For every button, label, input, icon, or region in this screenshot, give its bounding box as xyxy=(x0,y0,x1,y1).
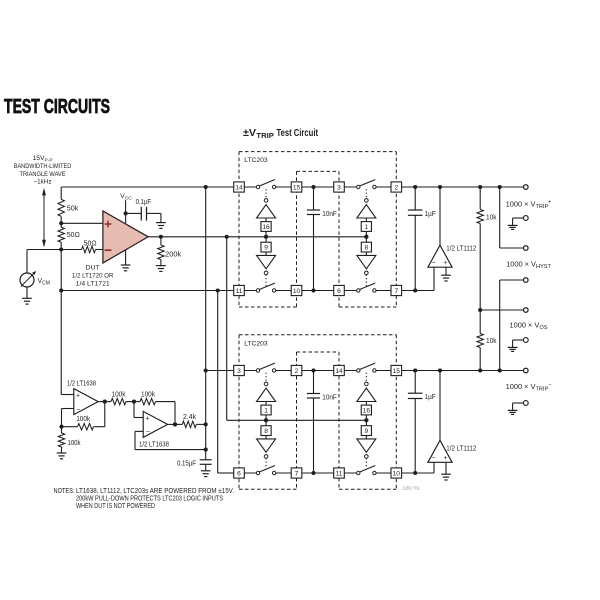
svg-text:11: 11 xyxy=(236,288,243,295)
svg-text:1µF: 1µF xyxy=(425,394,436,401)
svg-text:TRIANGLE WAVE: TRIANGLE WAVE xyxy=(20,171,66,178)
svg-text:1: 1 xyxy=(264,407,268,414)
svg-text:15: 15 xyxy=(393,368,401,375)
svg-text:11301 T01: 11301 T01 xyxy=(403,485,421,490)
svg-text:2: 2 xyxy=(394,184,398,191)
svg-text:−: − xyxy=(76,406,80,413)
svg-text:10: 10 xyxy=(293,288,301,295)
svg-text:11: 11 xyxy=(336,470,343,477)
svg-text:1/2 LT1112: 1/2 LT1112 xyxy=(446,246,476,253)
svg-text:3: 3 xyxy=(237,368,241,375)
svg-text:±V: ±V xyxy=(243,127,256,139)
svg-text:NOTES:: NOTES: xyxy=(54,488,75,495)
svg-text:1/4 LT1721: 1/4 LT1721 xyxy=(76,281,110,288)
svg-text:LT1638, LT1112, LTC203s ARE PO: LT1638, LT1112, LTC203s ARE POWERED FROM… xyxy=(76,488,234,495)
svg-text:+: + xyxy=(76,393,80,400)
svg-text:14: 14 xyxy=(335,368,343,375)
svg-text:16: 16 xyxy=(262,224,270,231)
svg-text:1/2 LT1638: 1/2 LT1638 xyxy=(67,380,96,387)
svg-text:7: 7 xyxy=(295,470,299,477)
svg-text:2.4k: 2.4k xyxy=(183,414,196,421)
svg-text:1: 1 xyxy=(365,224,369,231)
svg-text:100k: 100k xyxy=(112,392,126,399)
svg-text:8: 8 xyxy=(264,428,268,435)
svg-text:15: 15 xyxy=(293,184,301,191)
svg-text:+: + xyxy=(443,260,447,267)
svg-text:1µF: 1µF xyxy=(425,211,436,218)
svg-text:LTC203: LTC203 xyxy=(244,157,268,164)
svg-text:9: 9 xyxy=(264,245,268,252)
svg-text:50Ω: 50Ω xyxy=(67,232,80,239)
svg-text:50k: 50k xyxy=(67,206,79,213)
svg-text:6: 6 xyxy=(337,288,341,295)
svg-text:10: 10 xyxy=(393,470,401,477)
svg-text:9: 9 xyxy=(365,428,369,435)
svg-text:Test Circuit: Test Circuit xyxy=(277,127,319,139)
svg-text:6: 6 xyxy=(237,470,241,477)
svg-text:+: + xyxy=(145,415,149,422)
svg-text:LTC203: LTC203 xyxy=(244,340,268,347)
svg-text:TRIP: TRIP xyxy=(256,133,274,140)
svg-text:1/2 LT1638: 1/2 LT1638 xyxy=(139,442,169,449)
svg-text:200kW PULL-DOWN PROTECTS LTC20: 200kW PULL-DOWN PROTECTS LTC203 LOGIC IN… xyxy=(76,496,223,503)
svg-text:14: 14 xyxy=(235,184,243,191)
svg-text:10k: 10k xyxy=(486,338,497,345)
svg-text:16: 16 xyxy=(363,407,371,414)
svg-text:WHEN DUT IS NOT POWERED: WHEN DUT IS NOT POWERED xyxy=(76,503,155,510)
svg-text:TEST CIRCUITS: TEST CIRCUITS xyxy=(4,95,110,118)
svg-text:50Ω: 50Ω xyxy=(84,241,97,248)
svg-text:0.15µF: 0.15µF xyxy=(177,461,196,468)
svg-text:100k: 100k xyxy=(68,440,81,447)
svg-text:DUT: DUT xyxy=(86,264,100,271)
svg-text:−: − xyxy=(431,455,435,462)
svg-text:100k: 100k xyxy=(76,416,90,423)
svg-text:8: 8 xyxy=(365,245,369,252)
svg-text:2: 2 xyxy=(295,368,299,375)
svg-text:0.1µF: 0.1µF xyxy=(136,199,152,206)
svg-text:BANDWIDTH-LIMITED: BANDWIDTH-LIMITED xyxy=(14,163,72,170)
svg-text:10k: 10k xyxy=(486,215,497,222)
svg-text:~1kHz: ~1kHz xyxy=(34,179,53,186)
svg-text:10nF: 10nF xyxy=(322,211,337,218)
svg-text:10nF: 10nF xyxy=(322,394,337,401)
svg-text:−: − xyxy=(146,429,150,436)
svg-text:100k: 100k xyxy=(141,392,155,399)
svg-text:1/2 LT1112: 1/2 LT1112 xyxy=(446,446,476,453)
svg-text:7: 7 xyxy=(394,288,398,295)
svg-text:1/2 LT1720 OR: 1/2 LT1720 OR xyxy=(72,272,114,279)
svg-text:−: − xyxy=(431,260,435,267)
svg-text:+: + xyxy=(443,455,447,462)
svg-text:200k: 200k xyxy=(165,252,182,259)
svg-text:3: 3 xyxy=(337,184,341,191)
